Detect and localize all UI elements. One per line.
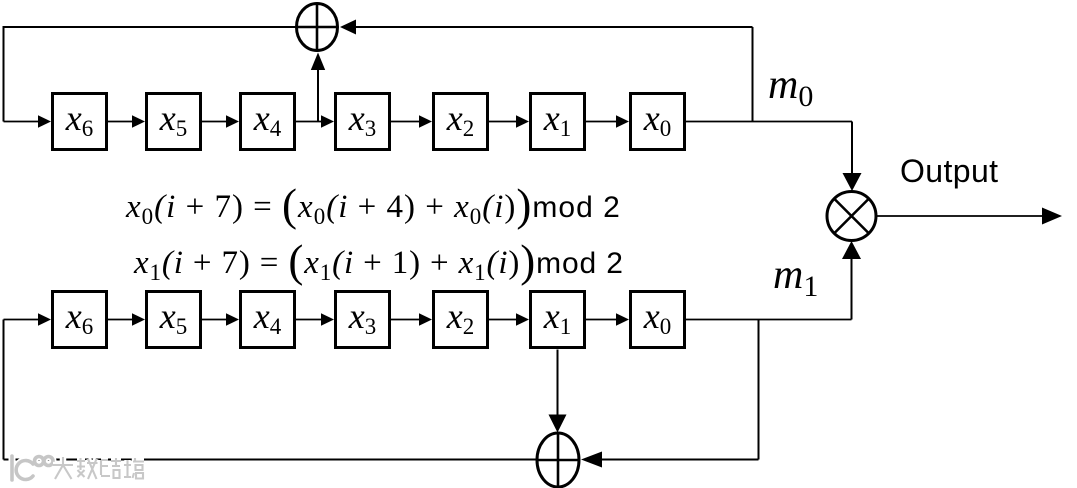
wire top feedback horizontal (xor1 output to left edge) bbox=[4, 26, 296, 28]
wire left vertical feedback (bottom LFSR) bbox=[3, 320, 5, 460]
arrow into x4 bottom bbox=[226, 313, 239, 326]
register box x2 (top row) bbox=[434, 94, 488, 150]
register box x5 (top row) bbox=[147, 94, 201, 150]
register box x4 (bottom row) bbox=[241, 292, 295, 348]
wire x1-x0 top bbox=[586, 121, 618, 123]
register box x1 (top row) bbox=[531, 94, 585, 150]
register box x6 (bottom row) bbox=[53, 292, 107, 348]
arrow into x0 bottom bbox=[616, 313, 629, 326]
wire x3-x2 top bbox=[391, 121, 421, 123]
register box x1 (bottom row) bbox=[531, 292, 585, 348]
wire x4-x3 bottom bbox=[296, 319, 323, 321]
arrow into x1 top bbox=[516, 115, 529, 128]
arrow down into xor2 top bbox=[549, 415, 567, 433]
arrow into xor1 right side bbox=[340, 20, 356, 35]
arrow output end bbox=[1042, 208, 1062, 225]
wire top right horizontal into xor1 bbox=[354, 26, 753, 28]
wire m0 down to multiplier bbox=[851, 122, 853, 175]
multiplier U3 (output mixer) bbox=[827, 192, 876, 241]
arrow into x1 bottom bbox=[516, 313, 529, 326]
wire x3-x2 bottom bbox=[391, 319, 421, 321]
wire into x6 top row bbox=[4, 121, 40, 123]
wire feedback junction down (bottom right) bbox=[758, 320, 760, 460]
wire tap from x4/x3 node up to xor1 bbox=[317, 68, 319, 122]
wire multiplier output bbox=[877, 215, 1048, 217]
wire x6-x5 top bbox=[108, 121, 134, 123]
wire x4-x3 top (through tap node) bbox=[296, 121, 323, 123]
wire x2-x1 bottom bbox=[489, 319, 518, 321]
arrow into x6 bottom row bbox=[38, 313, 51, 326]
wire x5-x4 top bbox=[202, 121, 228, 123]
arrow into x5 bottom bbox=[132, 313, 145, 326]
wire x1-x0 bottom bbox=[586, 319, 618, 321]
xor adder U2 (bottom) bbox=[537, 433, 579, 487]
arrow into x6 top row bbox=[38, 115, 51, 128]
arrow down into multiplier top bbox=[843, 173, 862, 191]
wire x6-x5 bottom bbox=[108, 319, 134, 321]
register box x5 (bottom row) bbox=[147, 292, 201, 348]
arrow into x5 top bbox=[132, 115, 145, 128]
arrow into x2 bottom bbox=[419, 313, 432, 326]
arrow up into xor1 bottom bbox=[311, 53, 325, 71]
wire bottom left (xor2 output to left edge) bbox=[4, 459, 537, 461]
wire x0 output to multiplier branch (top row) bbox=[686, 121, 852, 123]
wire tap x1 down to xor2 (bottom) bbox=[557, 350, 559, 416]
wire x5-x4 bottom bbox=[202, 319, 228, 321]
watermark text da-shu-kua-jing (approximated strokes) bbox=[53, 457, 144, 479]
wire left vertical feedback (top LFSR) bbox=[3, 26, 5, 122]
svg-text:Output: Output bbox=[900, 153, 998, 189]
arrow up into multiplier bottom bbox=[842, 241, 861, 259]
register box x0 (bottom row) bbox=[631, 292, 685, 348]
wire bottom right into xor2 bbox=[600, 459, 759, 461]
register box x0 (top row) bbox=[631, 94, 685, 150]
register box x6 (top row) bbox=[53, 94, 107, 150]
arrow into x3 bottom bbox=[321, 313, 334, 326]
arrow into x4 top bbox=[226, 115, 239, 128]
wire vertical at node x=752 (x0 output up to top wire) bbox=[752, 27, 754, 122]
arrow into x0 top bbox=[616, 115, 629, 128]
arrow into x2 top bbox=[419, 115, 432, 128]
xor adder U1 (top) bbox=[297, 4, 338, 51]
wire x2-x1 top bbox=[489, 121, 518, 123]
arrow into x3 top bbox=[321, 115, 334, 128]
watermark logo (bottom left) bbox=[12, 456, 53, 480]
register box x3 (top row) bbox=[336, 94, 390, 150]
register box x4 (top row) bbox=[241, 94, 295, 150]
register box x3 (bottom row) bbox=[336, 292, 390, 348]
register box x2 (bottom row) bbox=[434, 292, 488, 348]
wire m1 up to multiplier bbox=[851, 258, 853, 320]
wire into x6 bottom row bbox=[4, 319, 40, 321]
arrow into xor2 right side bbox=[581, 452, 602, 468]
wire x0 output right (bottom row) bbox=[686, 319, 852, 321]
